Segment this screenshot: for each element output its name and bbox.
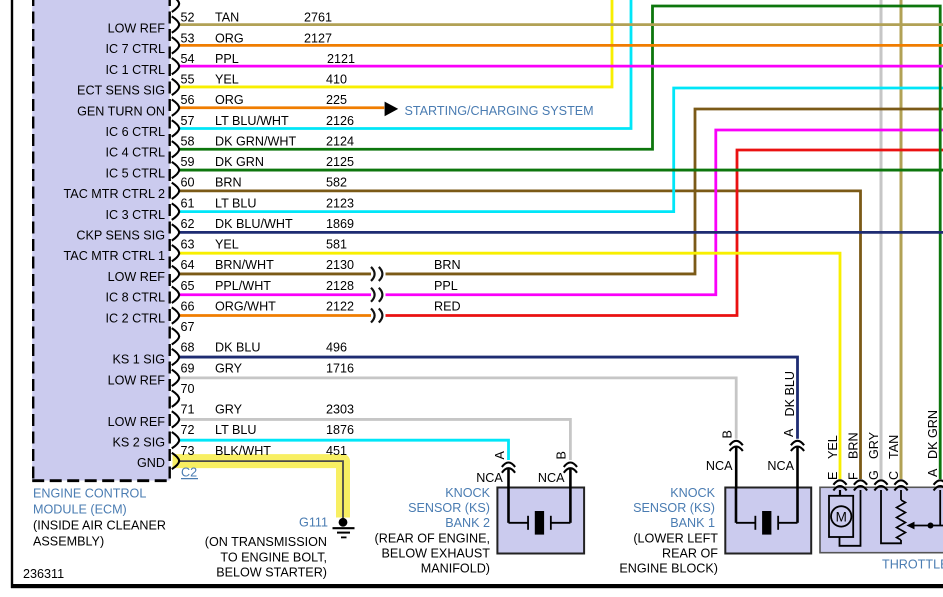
svg-text:BELOW EXHAUST: BELOW EXHAUST bbox=[382, 546, 491, 560]
svg-text:69: 69 bbox=[181, 361, 195, 375]
svg-text:RED: RED bbox=[434, 299, 461, 313]
svg-text:BRN: BRN bbox=[215, 176, 242, 190]
svg-text:57: 57 bbox=[181, 114, 195, 128]
svg-text:LT BLU: LT BLU bbox=[215, 196, 257, 210]
svg-text:DK GRN/WHT: DK GRN/WHT bbox=[215, 134, 296, 148]
svg-text:A: A bbox=[782, 428, 796, 437]
svg-text:B: B bbox=[721, 430, 735, 438]
svg-text:SENSOR (KS): SENSOR (KS) bbox=[408, 501, 490, 515]
svg-text:IC 7 CTRL: IC 7 CTRL bbox=[106, 42, 165, 56]
svg-text:TAC MTR CTRL 2: TAC MTR CTRL 2 bbox=[64, 187, 165, 201]
svg-text:(INSIDE AIR CLEANER: (INSIDE AIR CLEANER bbox=[33, 519, 166, 533]
svg-text:LT BLU: LT BLU bbox=[215, 423, 257, 437]
svg-text:DK BLU/WHT: DK BLU/WHT bbox=[215, 217, 293, 231]
svg-text:DK BLU: DK BLU bbox=[783, 371, 797, 417]
svg-text:67: 67 bbox=[181, 320, 195, 334]
svg-text:54: 54 bbox=[181, 52, 195, 66]
svg-text:2121: 2121 bbox=[327, 52, 355, 66]
svg-text:2123: 2123 bbox=[326, 196, 354, 210]
svg-text:55: 55 bbox=[181, 73, 195, 87]
svg-text:MODULE (ECM): MODULE (ECM) bbox=[33, 503, 127, 517]
svg-text:YEL: YEL bbox=[826, 435, 840, 459]
svg-text:BANK 2: BANK 2 bbox=[445, 516, 490, 530]
svg-text:581: 581 bbox=[326, 238, 347, 252]
svg-text:ORG/WHT: ORG/WHT bbox=[215, 299, 276, 313]
svg-text:410: 410 bbox=[326, 73, 347, 87]
svg-text:IC 5 CTRL: IC 5 CTRL bbox=[106, 166, 165, 180]
svg-text:(ON TRANSMISSION: (ON TRANSMISSION bbox=[205, 535, 327, 549]
svg-text:68: 68 bbox=[181, 341, 195, 355]
svg-text:ASSEMBLY): ASSEMBLY) bbox=[33, 535, 104, 549]
svg-text:60: 60 bbox=[181, 176, 195, 190]
svg-text:2122: 2122 bbox=[326, 299, 354, 313]
svg-text:2128: 2128 bbox=[326, 279, 354, 293]
svg-text:LOW REF: LOW REF bbox=[108, 270, 166, 284]
svg-text:NCA: NCA bbox=[538, 471, 565, 485]
svg-text:DK GRN: DK GRN bbox=[926, 410, 940, 459]
svg-text:G111: G111 bbox=[299, 516, 328, 530]
svg-text:GRY: GRY bbox=[867, 431, 881, 459]
svg-text:LOW REF: LOW REF bbox=[108, 373, 166, 387]
svg-text:YEL: YEL bbox=[215, 238, 239, 252]
svg-text:ORG: ORG bbox=[215, 31, 244, 45]
svg-text:1716: 1716 bbox=[326, 361, 354, 375]
svg-text:NCA: NCA bbox=[706, 459, 733, 473]
svg-text:B: B bbox=[555, 451, 569, 459]
svg-text:73: 73 bbox=[181, 444, 195, 458]
svg-text:451: 451 bbox=[326, 444, 347, 458]
svg-text:IC 8 CTRL: IC 8 CTRL bbox=[106, 291, 165, 305]
svg-text:BELOW STARTER): BELOW STARTER) bbox=[216, 565, 327, 579]
svg-text:NCA: NCA bbox=[476, 471, 503, 485]
svg-text:LT BLU/WHT: LT BLU/WHT bbox=[215, 114, 289, 128]
svg-text:TAC MTR CTRL 1: TAC MTR CTRL 1 bbox=[64, 249, 165, 263]
svg-text:53: 53 bbox=[181, 31, 195, 45]
svg-text:582: 582 bbox=[326, 176, 347, 190]
svg-text:2127: 2127 bbox=[304, 31, 332, 45]
svg-text:ENGINE BLOCK): ENGINE BLOCK) bbox=[619, 562, 718, 576]
svg-text:GEN TURN ON: GEN TURN ON bbox=[77, 104, 165, 118]
svg-text:64: 64 bbox=[181, 258, 195, 272]
svg-text:2124: 2124 bbox=[326, 134, 354, 148]
svg-text:225: 225 bbox=[326, 93, 347, 107]
svg-text:A: A bbox=[493, 451, 507, 460]
svg-text:SENSOR (KS): SENSOR (KS) bbox=[633, 501, 715, 515]
svg-text:IC 6 CTRL: IC 6 CTRL bbox=[106, 125, 165, 139]
svg-text:2125: 2125 bbox=[326, 155, 354, 169]
svg-text:THROTTLE B: THROTTLE B bbox=[882, 558, 943, 572]
svg-text:65: 65 bbox=[181, 279, 195, 293]
svg-text:G: G bbox=[867, 470, 881, 480]
svg-text:NCA: NCA bbox=[767, 459, 794, 473]
svg-text:IC 4 CTRL: IC 4 CTRL bbox=[106, 146, 165, 160]
svg-text:TO ENGINE BOLT,: TO ENGINE BOLT, bbox=[220, 550, 327, 564]
svg-text:LOW REF: LOW REF bbox=[108, 22, 166, 36]
svg-text:KS 2 SIG: KS 2 SIG bbox=[113, 436, 166, 450]
svg-text:GRY: GRY bbox=[215, 403, 243, 417]
svg-text:2761: 2761 bbox=[304, 11, 332, 25]
svg-text:61: 61 bbox=[181, 196, 195, 210]
svg-text:YEL: YEL bbox=[215, 73, 239, 87]
svg-text:62: 62 bbox=[181, 217, 195, 231]
svg-text:GRY: GRY bbox=[215, 361, 243, 375]
svg-text:IC 2 CTRL: IC 2 CTRL bbox=[106, 311, 165, 325]
svg-text:BRN: BRN bbox=[847, 432, 861, 459]
svg-text:2303: 2303 bbox=[326, 403, 354, 417]
svg-text:E: E bbox=[826, 472, 840, 480]
svg-text:63: 63 bbox=[181, 238, 195, 252]
svg-text:REAR OF: REAR OF bbox=[662, 546, 718, 560]
svg-text:496: 496 bbox=[326, 341, 347, 355]
svg-text:F: F bbox=[847, 472, 861, 480]
svg-text:BRN/WHT: BRN/WHT bbox=[215, 258, 274, 272]
svg-text:KNOCK: KNOCK bbox=[445, 486, 490, 500]
svg-text:1869: 1869 bbox=[326, 217, 354, 231]
svg-text:1876: 1876 bbox=[326, 423, 354, 437]
svg-text:KNOCK: KNOCK bbox=[670, 486, 715, 500]
svg-text:ENGINE CONTROL: ENGINE CONTROL bbox=[33, 487, 146, 501]
svg-text:59: 59 bbox=[181, 155, 195, 169]
svg-text:IC 1 CTRL: IC 1 CTRL bbox=[106, 63, 165, 77]
svg-text:C: C bbox=[887, 471, 901, 480]
svg-text:ECT SENS SIG: ECT SENS SIG bbox=[77, 84, 165, 98]
svg-text:DK GRN: DK GRN bbox=[215, 155, 264, 169]
svg-text:ORG: ORG bbox=[215, 93, 244, 107]
svg-text:GND: GND bbox=[137, 456, 165, 470]
svg-text:KS 1 SIG: KS 1 SIG bbox=[113, 353, 166, 367]
svg-text:(LOWER LEFT: (LOWER LEFT bbox=[633, 531, 718, 545]
svg-text:2126: 2126 bbox=[326, 114, 354, 128]
svg-text:236311: 236311 bbox=[23, 567, 64, 581]
svg-text:PPL/WHT: PPL/WHT bbox=[215, 279, 271, 293]
svg-text:MANIFOLD): MANIFOLD) bbox=[421, 562, 490, 576]
svg-text:DK BLU: DK BLU bbox=[215, 341, 261, 355]
svg-text:IC 3 CTRL: IC 3 CTRL bbox=[106, 208, 165, 222]
svg-text:(REAR OF ENGINE,: (REAR OF ENGINE, bbox=[375, 531, 490, 545]
svg-text:LOW REF: LOW REF bbox=[108, 415, 166, 429]
svg-text:CKP SENS SIG: CKP SENS SIG bbox=[76, 229, 165, 243]
svg-text:C2: C2 bbox=[181, 465, 197, 479]
svg-text:TAN: TAN bbox=[215, 11, 239, 25]
svg-text:PPL: PPL bbox=[215, 52, 239, 66]
svg-text:52: 52 bbox=[181, 11, 195, 25]
svg-text:PPL: PPL bbox=[434, 279, 458, 293]
svg-text:BANK 1: BANK 1 bbox=[670, 516, 715, 530]
svg-text:70: 70 bbox=[181, 382, 195, 396]
svg-text:58: 58 bbox=[181, 134, 195, 148]
svg-text:STARTING/CHARGING SYSTEM: STARTING/CHARGING SYSTEM bbox=[405, 104, 594, 118]
svg-text:M: M bbox=[836, 509, 847, 524]
svg-text:66: 66 bbox=[181, 299, 195, 313]
svg-text:2130: 2130 bbox=[326, 258, 354, 272]
svg-text:BRN: BRN bbox=[434, 258, 461, 272]
svg-text:BLK/WHT: BLK/WHT bbox=[215, 444, 271, 458]
svg-text:TAN: TAN bbox=[887, 435, 901, 459]
svg-text:72: 72 bbox=[181, 423, 195, 437]
svg-text:56: 56 bbox=[181, 93, 195, 107]
svg-text:A: A bbox=[926, 468, 940, 477]
svg-text:71: 71 bbox=[181, 403, 195, 417]
